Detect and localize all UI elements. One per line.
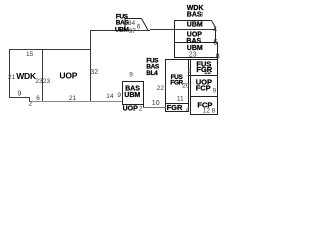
svg-text:23: 23 — [35, 78, 43, 85]
svg-text:WDK: WDK — [16, 71, 37, 81]
box B (BAS/UBM) — [123, 82, 144, 105]
svg-text:9: 9 — [129, 72, 133, 79]
svg-text:2: 2 — [139, 106, 143, 113]
svg-text:20: 20 — [182, 82, 190, 89]
top-right box T1 top edge — [174, 20, 212, 22]
R column bottom — [190, 114, 218, 116]
box M top + R1 top — [165, 59, 218, 61]
svg-text:UBM: UBM — [115, 27, 129, 34]
svg-text:FCP: FCP — [196, 84, 211, 93]
svg-text:21: 21 — [8, 74, 16, 81]
svg-text:8: 8 — [216, 53, 220, 60]
divider WDK/UOP — [42, 49, 44, 102]
svg-text:9: 9 — [18, 91, 22, 98]
long top line (right part) — [150, 29, 215, 31]
svg-text:UBM: UBM — [187, 22, 203, 29]
svg-text:6: 6 — [36, 95, 40, 102]
svg-text:FGR: FGR — [167, 103, 183, 112]
svg-text:21: 21 — [69, 95, 77, 102]
svg-text:23: 23 — [189, 51, 197, 58]
svg-text:32: 32 — [90, 69, 98, 76]
box M right edge — [188, 60, 190, 113]
svg-text:BAS: BAS — [186, 38, 201, 45]
svg-text:97: 97 — [129, 28, 137, 35]
svg-text:BL4: BL4 — [146, 70, 158, 77]
svg-text:15: 15 — [26, 51, 34, 58]
svg-text:3: 3 — [200, 11, 204, 18]
R2/R3 divider — [190, 96, 218, 98]
vertical wall x=90 — [90, 31, 92, 102]
svg-text:2: 2 — [29, 101, 33, 108]
svg-text:UBM: UBM — [124, 92, 140, 99]
T2 bottom edge — [174, 42, 218, 44]
T1 chamfer corner — [212, 21, 216, 28]
box B right edge extension — [143, 105, 145, 109]
M/FGR divider — [165, 103, 189, 105]
WDK bottom edge — [9, 97, 30, 99]
svg-text:10: 10 — [152, 100, 160, 107]
long bottom line L1 — [29, 101, 123, 103]
box M left edge — [165, 60, 167, 113]
T3 bottom edge — [174, 57, 218, 59]
R1/R2 divider — [188, 75, 218, 77]
svg-text:23: 23 — [43, 78, 51, 85]
pentagon porch left tick — [124, 19, 126, 31]
svg-text:8: 8 — [188, 68, 192, 75]
main dwelling top edge — [9, 49, 91, 51]
svg-text:8: 8 — [212, 107, 216, 114]
svg-text:6: 6 — [137, 23, 141, 30]
svg-text:UOP: UOP — [59, 70, 77, 80]
svg-text:12: 12 — [203, 107, 211, 114]
long top line (left part) — [90, 30, 150, 32]
svg-text:4: 4 — [186, 106, 190, 113]
T left edge — [174, 21, 176, 59]
step down at WDK corner — [29, 97, 31, 102]
pentagon porch top — [125, 18, 142, 20]
svg-text:84: 84 — [128, 20, 136, 27]
FGR box bottom — [165, 111, 189, 113]
svg-text:9: 9 — [117, 92, 121, 99]
svg-text:4: 4 — [213, 26, 217, 33]
svg-text:UOP: UOP — [123, 106, 139, 113]
T right edge upper — [215, 28, 217, 44]
pentagon porch diagonal — [142, 19, 149, 31]
R column left edge — [190, 60, 192, 116]
line L2 — [143, 107, 166, 109]
right column right edge — [217, 43, 219, 116]
svg-text:14: 14 — [106, 93, 114, 100]
svg-text:9: 9 — [213, 88, 217, 95]
main dwelling left edge — [9, 49, 11, 98]
svg-text:5: 5 — [214, 40, 218, 47]
svg-text:22: 22 — [157, 85, 165, 92]
svg-text:12: 12 — [204, 69, 212, 76]
svg-text:11: 11 — [177, 96, 184, 103]
